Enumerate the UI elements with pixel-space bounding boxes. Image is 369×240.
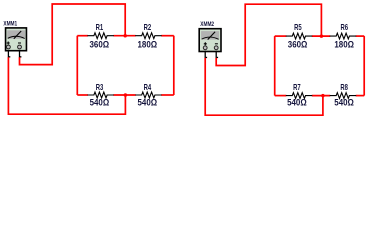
svg-text:360Ω: 360Ω bbox=[288, 40, 308, 50]
wire row1 right segment bbox=[161, 35, 174, 37]
XMM1 pin end ticks bbox=[9, 56, 10, 57]
junction node R3/R4 bbox=[124, 93, 128, 97]
XMM2 pin end ticks bbox=[206, 57, 207, 58]
wire row1 middle segment right circuit bbox=[312, 35, 330, 37]
svg-text:R7: R7 bbox=[293, 82, 301, 92]
svg-text:R8: R8 bbox=[340, 82, 348, 92]
wire right vertical between rows right circuit bbox=[363, 36, 365, 96]
XMM2 pin + bbox=[204, 52, 206, 59]
resistor R6 bbox=[330, 33, 357, 39]
XMM1 pin + bbox=[7, 51, 9, 58]
wire right vertical between rows bbox=[173, 36, 175, 95]
wire left vertical between rows right circuit bbox=[274, 36, 276, 96]
wire row2 left segment right circuit bbox=[275, 95, 287, 97]
svg-text:540Ω: 540Ω bbox=[334, 98, 354, 108]
wire row2 middle segment right circuit bbox=[312, 95, 330, 97]
wire row2 left segment bbox=[77, 94, 88, 96]
svg-text:540Ω: 540Ω bbox=[138, 98, 158, 108]
svg-text:R1: R1 bbox=[96, 22, 104, 32]
svg-text:180Ω: 180Ω bbox=[334, 40, 354, 50]
wire left vertical between rows bbox=[76, 36, 78, 95]
wire row1 right segment right circuit bbox=[356, 35, 365, 37]
junction node R5/R6 bbox=[320, 34, 324, 38]
wire row2 middle segment bbox=[113, 94, 135, 96]
wire XMM1 - up left rail over top to R1/R2 node bbox=[20, 4, 126, 65]
svg-text:R4: R4 bbox=[144, 82, 152, 92]
wire row2 right segment bbox=[161, 94, 174, 96]
svg-text:360Ω: 360Ω bbox=[90, 40, 110, 50]
svg-text:540Ω: 540Ω bbox=[287, 98, 307, 108]
junction node R1/R2 bbox=[123, 34, 127, 38]
XMM1 pin - bbox=[19, 51, 21, 58]
wire row1 middle segment bbox=[113, 35, 135, 37]
wire row1 left segment right circuit bbox=[275, 35, 287, 37]
svg-text:180Ω: 180Ω bbox=[138, 40, 158, 50]
resistor R3 bbox=[87, 92, 114, 98]
wire XMM2 - up left rail over top to R5/R6 node bbox=[216, 4, 321, 65]
junction node R7/R8 bbox=[321, 94, 325, 98]
svg-text:R3: R3 bbox=[96, 82, 104, 92]
multimeter XMM2 bbox=[199, 29, 221, 52]
svg-text:R6: R6 bbox=[341, 22, 349, 32]
wire row2 right segment right circuit bbox=[356, 95, 365, 97]
svg-text:XMM2: XMM2 bbox=[200, 21, 214, 28]
svg-text:R5: R5 bbox=[294, 22, 302, 32]
wire XMM2 + to bottom rail to R7/R8 node bbox=[205, 58, 323, 115]
resistor R4 bbox=[135, 92, 162, 98]
wire XMM1 + to bottom rail to R3/R4 node bbox=[8, 57, 125, 114]
wire row1 left segment bbox=[77, 35, 88, 37]
svg-text:XMM1: XMM1 bbox=[3, 21, 17, 28]
svg-text:540Ω: 540Ω bbox=[90, 98, 110, 108]
resistor R1 bbox=[87, 33, 114, 39]
XMM2 pin - bbox=[215, 52, 217, 59]
resistor R8 bbox=[330, 93, 357, 99]
resistor R7 bbox=[286, 93, 313, 99]
multimeter XMM1 bbox=[6, 28, 27, 51]
resistor R5 bbox=[286, 33, 313, 39]
resistor R2 bbox=[135, 33, 162, 39]
svg-text:R2: R2 bbox=[144, 22, 152, 32]
